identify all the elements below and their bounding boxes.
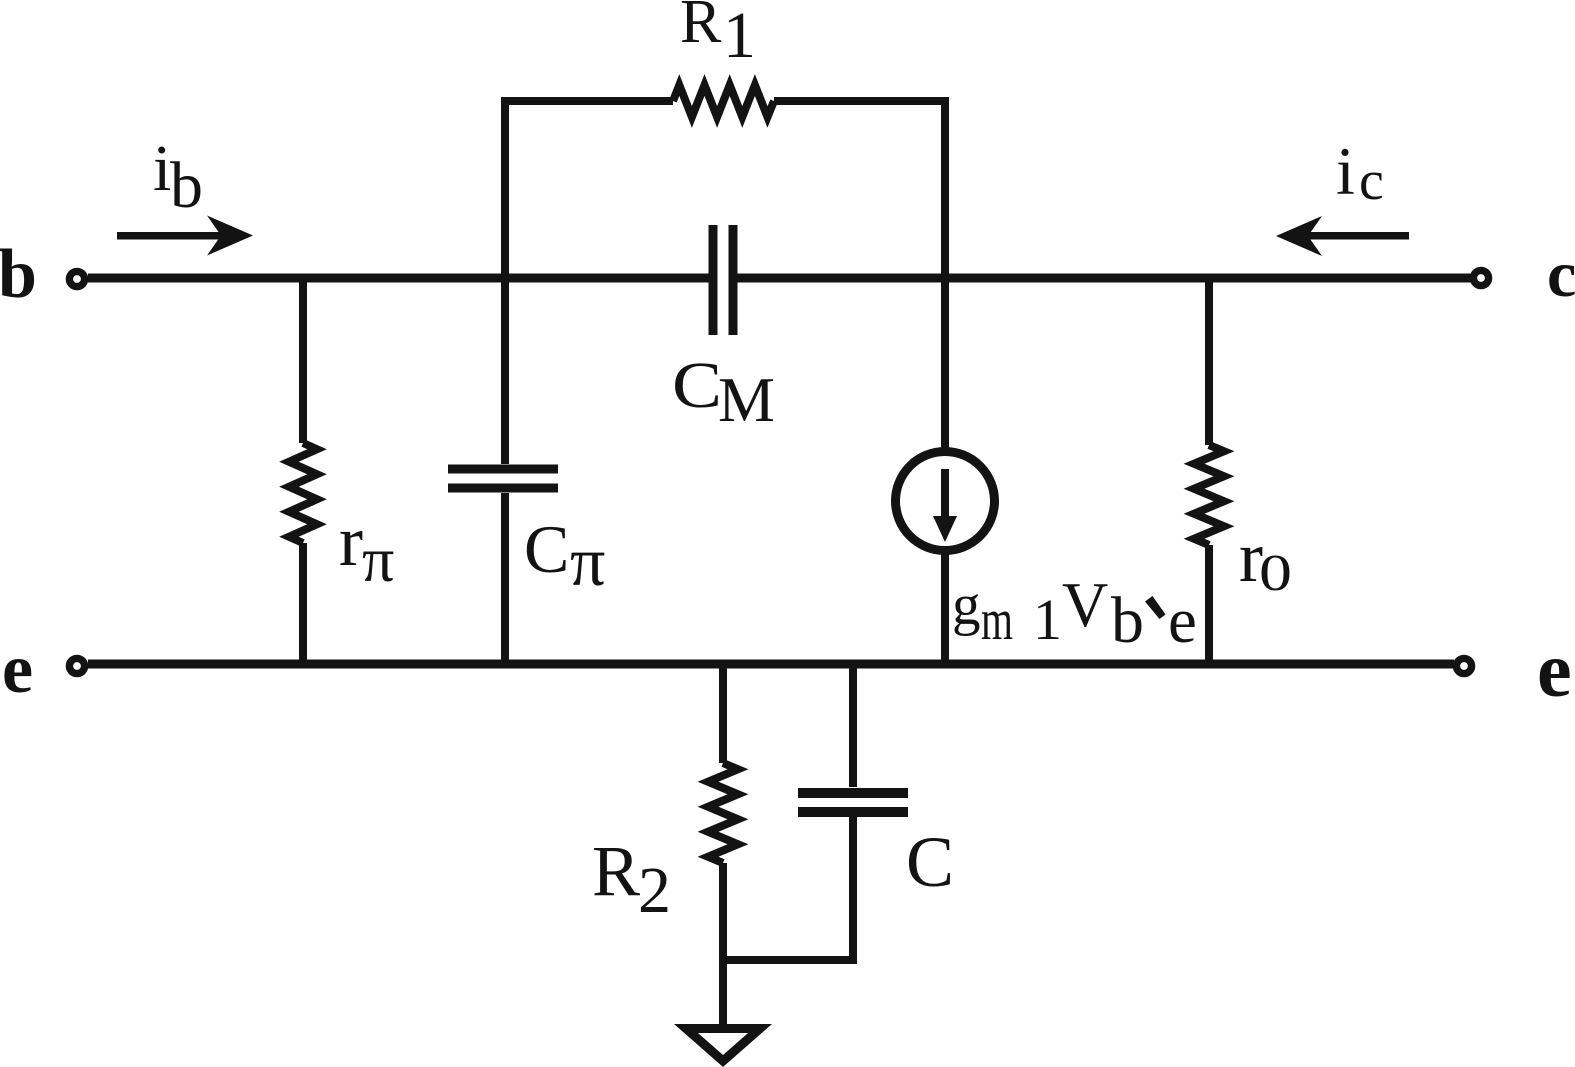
svg-text:2: 2: [638, 854, 671, 927]
svg-text:R: R: [592, 831, 640, 911]
svg-text:g: g: [952, 574, 981, 637]
svg-text:e: e: [1537, 626, 1572, 713]
svg-text:b: b: [0, 236, 37, 313]
svg-text:c: c: [1359, 150, 1384, 212]
svg-text:e: e: [1168, 585, 1197, 657]
svg-text:C: C: [672, 349, 722, 422]
svg-text:e: e: [2, 631, 33, 708]
svg-text:r: r: [339, 501, 363, 581]
svg-text:π: π: [570, 524, 605, 601]
svg-text:M: M: [718, 364, 775, 435]
svg-text:π: π: [362, 524, 394, 595]
svg-text:b: b: [170, 149, 203, 222]
svg-text:V: V: [1062, 569, 1108, 640]
svg-text:C: C: [524, 511, 569, 587]
svg-text:b: b: [1111, 584, 1144, 657]
svg-text:i: i: [1336, 133, 1355, 209]
svg-text:m: m: [981, 587, 1013, 652]
svg-text:1: 1: [723, 0, 756, 72]
svg-text:i: i: [153, 132, 171, 205]
svg-text:R: R: [680, 0, 722, 56]
svg-text:1: 1: [1033, 587, 1062, 652]
svg-text:c: c: [1547, 238, 1575, 311]
svg-text:C: C: [906, 822, 954, 902]
svg-text:0: 0: [1259, 545, 1292, 602]
